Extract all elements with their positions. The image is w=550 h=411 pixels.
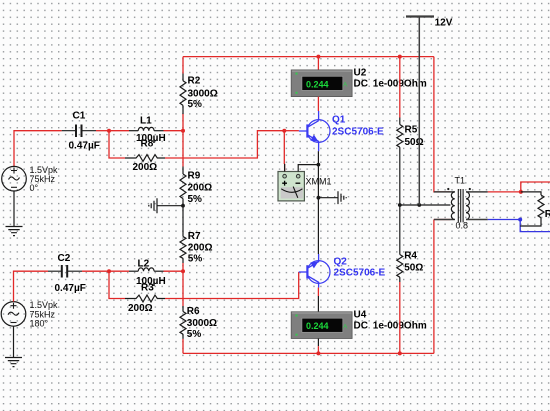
node D junction dot [107, 269, 111, 273]
svg-text:3000Ω: 3000Ω [187, 318, 217, 329]
wire R2 top stub [182, 57, 184, 74]
node load top dot [519, 190, 523, 194]
ground left-facing [149, 198, 157, 213]
node bus R4 dot [398, 351, 402, 355]
svg-text:2SC5706-E: 2SC5706-E [332, 127, 384, 138]
svg-text:R8: R8 [141, 139, 154, 150]
wire load bottom out to edge [520, 220, 550, 232]
wire secondary bottom blue [488, 219, 520, 221]
wire R6 bottom to bus [182, 339, 184, 354]
svg-text:C2: C2 [58, 253, 71, 264]
wire node A down to R8 [109, 131, 125, 158]
svg-text:L2: L2 [138, 258, 150, 269]
resistor R7 [180, 231, 213, 265]
wire junction to ground right [318, 197, 338, 199]
resistor R5 [397, 118, 424, 153]
svg-text:200Ω: 200Ω [188, 183, 213, 194]
wire XMM1 plus lead [283, 131, 285, 172]
wire V2 bottom to ground [13, 326, 15, 357]
wire R3 to Q2 base (step) [165, 272, 299, 299]
wire bus to R5 [399, 57, 401, 118]
vcc 12V supply [406, 17, 453, 29]
resistor R3 [125, 282, 165, 314]
wire load top out to edge [521, 182, 550, 192]
svg-text:200Ω: 200Ω [128, 303, 153, 314]
svg-text:200Ω: 200Ω [133, 162, 158, 173]
wire U4 bus red part [317, 346, 319, 353]
wire C2 to node D [82, 270, 109, 272]
svg-text:50Ω: 50Ω [404, 263, 423, 274]
wire Q1 emitter down to Q2 [317, 151, 319, 254]
svg-text:2SC5706-E: 2SC5706-E [334, 268, 386, 279]
wire node C down to R6 [182, 271, 184, 306]
svg-text:R4: R4 [404, 251, 417, 262]
svg-text:0.47µF: 0.47µF [55, 283, 86, 294]
node emitter-ground junction dot [317, 196, 321, 200]
wire U4 to bus bottom [317, 339, 319, 347]
wire tap horizontal [400, 204, 451, 206]
wire V2 top to C2 [14, 271, 49, 301]
node B junction dot [181, 129, 185, 133]
svg-text:R7: R7 [188, 231, 201, 242]
wire bus bottom [183, 352, 434, 354]
svg-text:3000Ω: 3000Ω [188, 88, 218, 99]
transistor Q1 [299, 111, 384, 151]
svg-text:0.244: 0.244 [306, 79, 329, 89]
svg-text:R9: R9 [188, 171, 201, 182]
svg-text:5%: 5% [188, 99, 203, 110]
resistor R4 [397, 251, 424, 282]
ground under V1 [6, 227, 23, 236]
wire node A to L1 [109, 130, 129, 132]
wire XMM1 plus lead black part [284, 164, 286, 172]
wire U2 to Q1 collector [317, 97, 319, 111]
wire R7 to node C [182, 263, 184, 271]
wire XMM1 minus lead [298, 165, 318, 172]
node top bus U2 dot [316, 55, 320, 59]
wire Q2-U4 black part [317, 296, 319, 312]
wire node D down to R3 [109, 271, 125, 298]
wire V1 top to C1 [14, 131, 62, 167]
resistor R9 [180, 167, 212, 206]
multimeter U4 [291, 310, 427, 339]
svg-text:U4: U4 [354, 310, 367, 321]
inductor L1 [129, 115, 166, 144]
wire transformer primary bottom to bottom bus [434, 220, 451, 354]
AC source V1 [2, 165, 58, 193]
ground under V2 [5, 358, 22, 367]
svg-text:R5: R5 [405, 125, 418, 136]
transistor Q2 [299, 254, 386, 288]
resistor R2 [180, 74, 218, 115]
svg-text:DC: DC [354, 79, 368, 90]
wire junction to ground left [157, 205, 183, 207]
svg-text:R6: R6 [187, 306, 200, 317]
wire bus to U2 [317, 57, 319, 70]
wire R4 top [399, 205, 401, 255]
wire L2 to node C [164, 270, 184, 272]
node XMM junction dot [317, 163, 321, 167]
svg-text:0.244: 0.244 [306, 321, 329, 331]
ground right-facing [338, 191, 346, 204]
wire top bus to transformer primary top [434, 57, 451, 192]
multimeter U2 [291, 68, 427, 97]
wire R5 bottom to center-tap node [399, 152, 401, 205]
wire 12V rail [418, 17, 420, 206]
node R5-R4-tap junction dot [398, 203, 402, 207]
node A junction dot [107, 129, 111, 133]
svg-text:180°: 180° [30, 318, 49, 328]
transformer T1 [434, 176, 488, 231]
svg-text:5%: 5% [188, 254, 203, 265]
node base1 junction dot [282, 129, 286, 133]
AC source V2 [1, 300, 58, 328]
node load bottom dot [518, 218, 522, 222]
node C junction dot [181, 269, 185, 273]
wire C1 to node A [96, 130, 109, 132]
svg-text:C1: C1 [73, 111, 86, 122]
svg-text:DC: DC [354, 321, 368, 332]
svg-text:A: A [343, 323, 348, 330]
resistor R8 [125, 139, 165, 173]
svg-text:5%: 5% [187, 329, 202, 340]
node bus U4 dot [316, 351, 320, 355]
wire R4 bottom to bus [399, 282, 401, 353]
svg-text:R2: R2 [188, 76, 201, 87]
wire junction down to R7 [182, 206, 184, 237]
svg-text:R1: R1 [545, 209, 550, 220]
node rail-tap junction dot [417, 203, 421, 207]
capacitor C2 [48, 253, 86, 294]
resistor R6 [180, 306, 217, 340]
wire bus top [183, 56, 434, 58]
wire node D to L2 [109, 270, 129, 272]
svg-text:5%: 5% [188, 194, 203, 205]
multimeter XMM1 [278, 172, 332, 201]
svg-text:200Ω: 200Ω [188, 243, 213, 254]
svg-text:12V: 12V [435, 17, 453, 28]
wire secondary top to load [488, 191, 521, 193]
svg-text:R3: R3 [141, 282, 154, 293]
capacitor C1 [62, 111, 100, 152]
wire V1 bottom to ground [13, 191, 15, 227]
inductor L2 [129, 258, 166, 287]
resistor R1 load [520, 192, 550, 226]
wire Q2 to U4 [317, 288, 319, 296]
wire L1 to node B [164, 130, 184, 132]
node R9-ground junction dot [181, 204, 185, 208]
svg-text:T1: T1 [455, 176, 466, 186]
wire base1 to Q1 [284, 130, 299, 132]
wire R8 to Q1 base (step) [165, 131, 284, 158]
svg-text:50Ω: 50Ω [405, 137, 424, 148]
svg-text:Q1: Q1 [332, 115, 346, 126]
svg-text:U2: U2 [354, 68, 367, 79]
svg-text:0.47µF: 0.47µF [69, 141, 100, 152]
svg-text:0°: 0° [30, 183, 39, 193]
svg-text:A: A [343, 82, 348, 89]
node top bus R5 dot [398, 55, 402, 59]
svg-text:L1: L1 [140, 115, 152, 126]
svg-text:Q2: Q2 [334, 257, 348, 268]
svg-text:0.8: 0.8 [456, 221, 469, 231]
wire R2 bottom to node B and down [182, 114, 184, 167]
